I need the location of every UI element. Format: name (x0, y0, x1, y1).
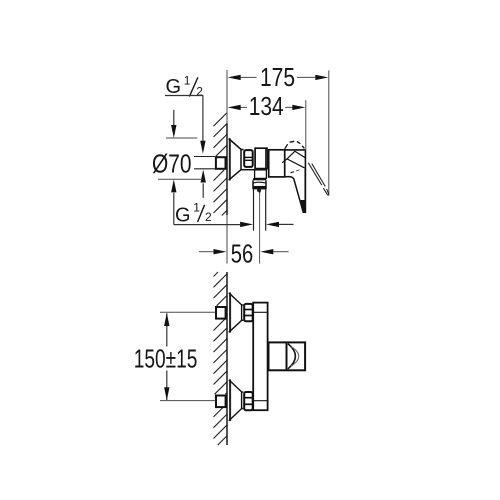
svg-text:G: G (175, 205, 191, 227)
svg-text:G: G (166, 76, 182, 98)
svg-text:1: 1 (193, 200, 200, 214)
svg-text:175: 175 (260, 64, 295, 92)
svg-text:150±15: 150±15 (134, 345, 198, 373)
svg-text:2: 2 (196, 84, 203, 98)
svg-text:134: 134 (249, 93, 284, 121)
svg-text:56: 56 (231, 241, 254, 269)
svg-text:2: 2 (205, 210, 212, 224)
svg-text:Ø70: Ø70 (152, 150, 192, 178)
svg-text:1: 1 (184, 73, 191, 87)
